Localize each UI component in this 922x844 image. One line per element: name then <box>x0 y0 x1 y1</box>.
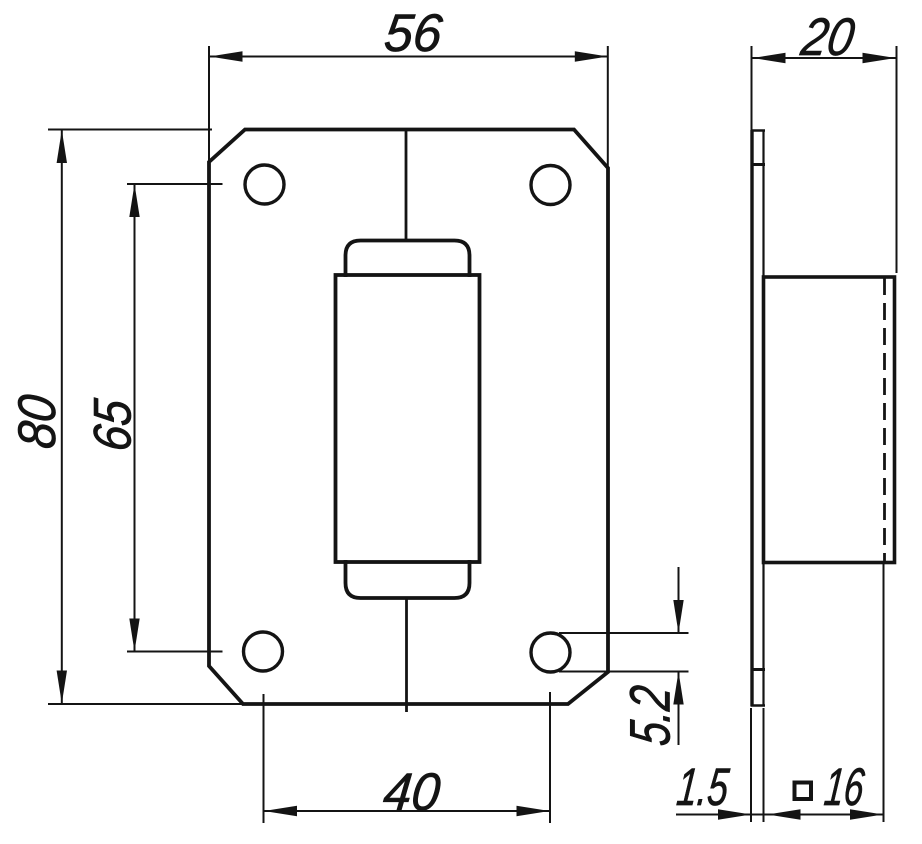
extension line lower <box>559 671 689 673</box>
arrow down <box>673 600 683 633</box>
arrow right <box>863 53 896 63</box>
label 1.5 <box>674 758 731 817</box>
label 20 <box>797 8 859 67</box>
side plate left face <box>750 130 753 706</box>
extension line left <box>751 46 753 130</box>
dimension line <box>134 184 136 652</box>
extension line right <box>896 46 898 273</box>
hole top-right <box>531 166 570 205</box>
hole mark top <box>751 163 766 166</box>
hole bottom-left <box>244 632 283 671</box>
dimension leader lower <box>678 672 680 746</box>
svg-text:40: 40 <box>381 763 444 822</box>
side plate right face <box>762 130 764 706</box>
extension line upper <box>559 632 689 634</box>
arrow left <box>264 806 297 816</box>
label 16 <box>822 758 867 817</box>
svg-text:20: 20 <box>797 8 859 67</box>
svg-text:5.2: 5.2 <box>619 683 683 749</box>
svg-text:1.5: 1.5 <box>674 758 731 817</box>
svg-text:56: 56 <box>382 4 446 63</box>
hole mark bottom <box>751 668 766 671</box>
arrow up <box>673 672 683 705</box>
arrow 1.5 pointing right <box>718 809 751 819</box>
side plate top edge <box>751 129 766 132</box>
dimension line <box>210 56 608 58</box>
label 5.2 (rotated) <box>619 683 683 749</box>
extension line plate right <box>763 708 765 822</box>
dimension leader upper <box>678 567 680 633</box>
label 65 (rotated) <box>84 396 143 454</box>
arrow right <box>575 51 608 61</box>
side body rectangle <box>764 277 895 563</box>
boss body rectangle <box>336 275 480 562</box>
arrow down <box>57 671 67 704</box>
extension line plate left <box>750 708 752 822</box>
centerline upper <box>405 130 408 241</box>
svg-text:65: 65 <box>84 396 143 454</box>
arrow left <box>210 51 243 61</box>
boss cap top (rounded) <box>346 241 470 278</box>
boss cap bottom (rounded) <box>346 560 470 598</box>
extension line left <box>208 46 210 186</box>
arrow 16 pointing right <box>850 809 883 819</box>
svg-text:80: 80 <box>8 392 67 452</box>
extension line bottom <box>48 703 245 705</box>
dimension line <box>752 57 896 59</box>
centerline lower <box>405 598 408 712</box>
arrow left <box>753 53 786 63</box>
svg-text:16: 16 <box>822 758 867 817</box>
extension line square <box>883 564 885 822</box>
extension line left <box>263 694 265 823</box>
side plate bottom edge <box>751 704 766 707</box>
dimension line <box>264 810 550 812</box>
arrow up <box>57 130 67 163</box>
hidden square hole (dashed) <box>883 278 886 562</box>
label 40 <box>381 763 444 822</box>
plate outline (octagon with chamfered corners) <box>209 130 608 705</box>
dimension line <box>61 130 63 704</box>
extension line bottom <box>127 651 223 653</box>
extension line right <box>549 692 551 823</box>
extension line top <box>48 129 212 131</box>
dimension line <box>676 814 883 816</box>
label 80 (rotated) <box>8 392 67 452</box>
extension line right <box>607 46 609 168</box>
arrow middle pointing left <box>768 809 801 819</box>
extension line top <box>127 183 223 185</box>
label 56 <box>382 4 446 63</box>
square symbol <box>795 783 812 800</box>
hole bottom-right <box>531 633 570 672</box>
arrow up <box>129 184 139 217</box>
arrow down <box>129 619 139 652</box>
arrow right <box>517 806 550 816</box>
hole top-left <box>245 165 284 204</box>
